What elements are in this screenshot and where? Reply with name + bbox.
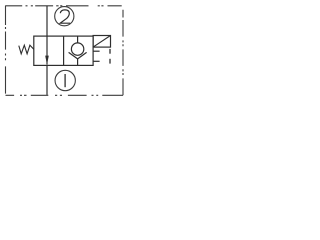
check valve stub bottom: [77, 59, 79, 66]
enclosure frame bottom edge: [6, 94, 124, 96]
check valve seat: [69, 52, 87, 59]
valve body: [34, 36, 93, 65]
wire port 1 line: [46, 65, 48, 95]
terminal pin 2: [109, 59, 111, 64]
enclosure frame right edge: [122, 10, 124, 96]
digit 1: [64, 74, 66, 87]
enclosure frame left edge: [5, 6, 7, 94]
terminal pin 1: [109, 49, 111, 54]
spring W: [19, 45, 34, 54]
valve position divider: [63, 36, 65, 65]
check valve ball: [71, 43, 83, 55]
digit 2: [60, 10, 70, 23]
solenoid coil U1: [93, 36, 110, 48]
terminal lead 2: [93, 60, 100, 62]
check valve stub top: [77, 36, 79, 43]
solenoid diagonal: [93, 36, 110, 48]
flow arrowhead: [45, 56, 49, 65]
port label circle 1: [55, 70, 75, 90]
port label circle 2: [55, 7, 74, 26]
terminal lead 1: [93, 50, 100, 52]
enclosure frame top edge (long dash double dot): [5, 5, 122, 7]
flow path line: [46, 36, 48, 65]
wire port 2 line: [46, 6, 48, 36]
